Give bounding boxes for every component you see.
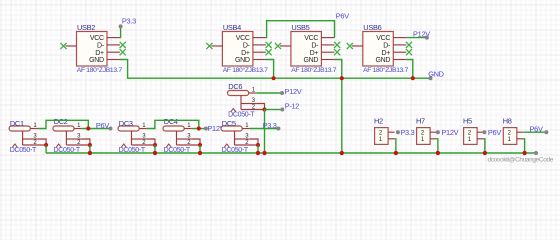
svg-text:AF 180°ZJB13.7: AF 180°ZJB13.7 [77, 66, 123, 74]
svg-text:GND: GND [304, 57, 319, 64]
svg-text:USB4: USB4 [223, 23, 241, 32]
svg-text:USB6: USB6 [363, 23, 381, 32]
svg-text:P3.3: P3.3 [263, 121, 277, 130]
svg-text:D+: D+ [95, 50, 104, 57]
svg-text:VCC: VCC [304, 35, 318, 42]
svg-text:USB2: USB2 [77, 23, 95, 32]
svg-text:P6V: P6V [96, 121, 109, 130]
svg-text:VCC: VCC [376, 35, 390, 42]
svg-text:P3.3: P3.3 [122, 17, 136, 26]
svg-text:D+: D+ [241, 50, 250, 57]
svg-text:DC6: DC6 [228, 82, 242, 91]
svg-text:P12V: P12V [413, 29, 430, 38]
svg-text:D-: D- [243, 43, 251, 50]
svg-text:H7: H7 [416, 116, 425, 125]
svg-text:H8: H8 [503, 116, 512, 125]
svg-text:H2: H2 [374, 116, 383, 125]
svg-text:P6V: P6V [488, 128, 501, 137]
svg-text:P-12: P-12 [285, 101, 300, 110]
svg-text:DC4: DC4 [164, 117, 178, 126]
svg-text:P6V: P6V [336, 12, 349, 21]
svg-text:VCC: VCC [236, 35, 250, 42]
svg-text:AF 180°ZJB13.7: AF 180°ZJB13.7 [363, 66, 409, 74]
svg-text:GND: GND [375, 57, 390, 64]
svg-text:D+: D+ [310, 50, 319, 57]
svg-text:D-: D- [97, 43, 105, 50]
svg-text:P6V: P6V [530, 125, 543, 134]
svg-text:USB5: USB5 [291, 23, 309, 32]
svg-text:AF 180°ZJB13.7: AF 180°ZJB13.7 [223, 66, 269, 74]
svg-text:D-: D- [311, 43, 319, 50]
svg-text:D-: D- [383, 43, 391, 50]
svg-text:AF 180°ZJB13.7: AF 180°ZJB13.7 [291, 66, 337, 74]
svg-text:dcoookit@ChuangeCode: dcoookit@ChuangeCode [488, 156, 554, 163]
svg-text:DC5: DC5 [222, 119, 236, 128]
svg-text:DC050-T: DC050-T [228, 111, 255, 118]
svg-text:H5: H5 [463, 116, 472, 125]
svg-text:P3.3: P3.3 [400, 128, 414, 137]
svg-text:P12V: P12V [285, 87, 302, 96]
svg-text:DC050-T: DC050-T [10, 147, 37, 154]
svg-text:VCC: VCC [90, 35, 104, 42]
svg-text:D+: D+ [382, 50, 391, 57]
svg-text:DC1: DC1 [10, 119, 24, 128]
svg-text:DC3: DC3 [119, 119, 133, 128]
svg-text:P12V: P12V [441, 128, 458, 137]
svg-text:GND: GND [89, 57, 104, 64]
svg-text:GND: GND [235, 57, 250, 64]
svg-text:DC2: DC2 [54, 117, 68, 126]
svg-text:GND: GND [428, 69, 444, 78]
